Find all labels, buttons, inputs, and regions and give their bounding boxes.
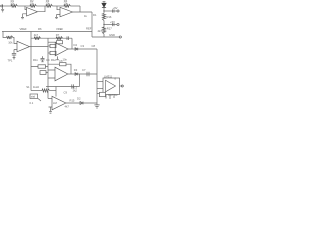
rail C mid horizontal — [31, 37, 72, 39]
wire to U3 — [13, 38, 17, 44]
svg-text:xtal: xtal — [31, 95, 36, 99]
resistor R4 (feedback) — [64, 4, 70, 7]
svg-text:D2: D2 — [77, 97, 81, 101]
component box P1 — [100, 92, 106, 96]
ground (input) — [1, 9, 4, 12]
svg-text:C3: C3 — [81, 44, 85, 48]
svg-text:8: 8 — [115, 77, 117, 81]
svg-text:R11: R11 — [33, 58, 38, 62]
capacitor tap2 marks — [113, 23, 114, 26]
op-amp U3 — [17, 41, 30, 52]
svg-text:C7: C7 — [82, 68, 86, 72]
resistor R7 — [56, 37, 62, 40]
wire R9 left — [48, 52, 50, 54]
wire P1 left — [97, 93, 100, 95]
wire — [36, 5, 46, 7]
terminal T1 — [117, 10, 119, 12]
svg-text:OUT 5V: OUT 5V — [108, 93, 118, 97]
rail E horizontal — [46, 86, 80, 88]
wire U3 lower input — [14, 50, 17, 54]
wire U5 inputs — [48, 70, 55, 78]
wire bottom line right — [92, 36, 119, 38]
svg-text:0.1: 0.1 — [30, 101, 34, 105]
diode D4 — [75, 48, 78, 51]
resistor R3 — [46, 4, 52, 7]
resistor R1 — [11, 4, 17, 7]
ground (U6) — [49, 112, 52, 113]
wire bus bottom — [103, 34, 105, 37]
diode D3 — [75, 73, 78, 76]
capacitor C1 — [12, 53, 16, 55]
capacitor C7 — [87, 72, 89, 76]
capacitor C10 mark — [56, 56, 59, 59]
op-amp U5 — [55, 67, 68, 81]
wire below C1 — [13, 55, 15, 57]
capacitor tap1 marks — [113, 9, 114, 12]
resistor R8 (box) — [50, 44, 56, 47]
svg-text:4k7: 4k7 — [65, 105, 70, 109]
wire vertical to rail B — [91, 12, 93, 37]
svg-text:LM: LM — [53, 101, 57, 105]
wire x97 vertical — [96, 49, 98, 105]
ground (C1) — [13, 58, 16, 59]
svg-text:4k7: 4k7 — [98, 29, 103, 33]
capacitor C2 — [67, 36, 69, 40]
svg-text:D4: D4 — [74, 43, 78, 47]
op-amp U1 — [27, 8, 38, 17]
wire bus mid — [103, 21, 105, 28]
wire U7 input bottom — [97, 88, 103, 90]
wire tap 1 — [104, 10, 117, 12]
svg-text:GND: GND — [109, 33, 115, 37]
component box above U5 — [60, 63, 67, 66]
svg-text:1kHz: 1kHz — [33, 85, 40, 89]
resistor R5 — [7, 36, 13, 39]
diode D2 — [80, 102, 83, 105]
resistor R11 (box) — [38, 65, 46, 68]
wire U1 noninverting stub — [23, 14, 27, 17]
right bus top tick — [103, 1, 106, 3]
wire — [17, 5, 30, 7]
wire U7 input top — [97, 81, 103, 83]
terminal T2 — [117, 23, 119, 25]
resistor R17 (vertical) — [102, 27, 105, 34]
svg-text:+9V: +9V — [113, 6, 118, 10]
wire — [52, 5, 64, 7]
svg-text:D1: D1 — [93, 13, 97, 17]
wire x56 vertical up — [55, 87, 57, 91]
capacitor C9 on rail E — [72, 84, 74, 88]
svg-text:2k2: 2k2 — [73, 89, 78, 93]
svg-text:LM311: LM311 — [104, 74, 113, 78]
wire U7 output stub — [120, 85, 122, 87]
svg-text:VREF: VREF — [20, 27, 28, 31]
resistor R16 (vertical) — [102, 14, 105, 21]
svg-text:R17: R17 — [107, 27, 112, 31]
svg-text:TP1: TP1 — [8, 59, 13, 63]
wire U6 bottom input — [49, 107, 53, 111]
resistor R14 — [42, 89, 50, 92]
resistor R6 — [34, 37, 40, 40]
svg-text:S1: S1 — [26, 85, 30, 89]
wire left bus x31 — [30, 32, 32, 91]
pin stubs below U7 — [106, 95, 114, 100]
svg-text:REF: REF — [86, 27, 92, 31]
svg-text:C4: C4 — [46, 58, 50, 62]
wire U4 output — [68, 48, 97, 50]
wire rail C to U4 feedback — [71, 38, 73, 49]
component C5 box — [40, 71, 46, 75]
wire U2 output — [73, 6, 93, 12]
svg-text:R12: R12 — [51, 58, 56, 62]
op-amp U6 — [52, 96, 66, 110]
ground (x97) — [94, 105, 99, 108]
component RF box above U4 — [57, 41, 63, 44]
svg-text:C6: C6 — [59, 59, 63, 63]
svg-text:+5V: +5V — [110, 20, 115, 24]
wire U3 output — [30, 46, 49, 48]
right bus vertical top — [103, 2, 105, 14]
ground (U1) — [21, 17, 24, 18]
wire — [70, 5, 80, 7]
wire x56 vertical down — [55, 91, 57, 97]
terminal T4 — [121, 85, 123, 87]
node dot — [103, 10, 104, 11]
ground (U2) — [55, 17, 58, 18]
wire U5 output — [68, 73, 97, 75]
wire U6 output — [66, 102, 97, 104]
wire U5 feedback — [48, 64, 71, 74]
tick X1 — [38, 99, 41, 102]
wire RF left — [48, 41, 57, 43]
wire — [50, 90, 56, 92]
svg-text:D3: D3 — [74, 68, 78, 72]
wire — [3, 5, 11, 7]
svg-text:VREF: VREF — [56, 27, 64, 31]
wire U6 top input — [48, 98, 52, 100]
svg-text:R15: R15 — [70, 98, 75, 102]
input source terminal — [1, 4, 3, 9]
op-amp U2 — [60, 7, 73, 16]
terminal T3 — [119, 36, 121, 38]
wire rail B drop left — [3, 32, 7, 38]
wire node to U2 inverting input — [57, 6, 60, 10]
op-amp U4 — [55, 43, 68, 56]
diode D1 — [102, 3, 106, 7]
wire node to U1 inverting input — [25, 6, 27, 10]
rail D horizontal — [31, 66, 48, 68]
svg-text:10k: 10k — [8, 41, 13, 45]
svg-text:R6: R6 — [38, 27, 42, 31]
wire U1 output — [38, 6, 46, 12]
op-amp U7 — [106, 80, 116, 92]
IC box U7 — [103, 78, 120, 95]
wire bus x48 — [47, 38, 49, 98]
wire tap 2 — [104, 24, 117, 26]
capacitor C4 with ground — [41, 56, 45, 62]
wire junction drop x79 — [79, 74, 81, 87]
wire bottom row — [31, 90, 42, 92]
node dot 2 — [103, 24, 104, 25]
wire C5 right — [46, 72, 48, 74]
resistor R9 (box) — [50, 51, 56, 54]
svg-text:10n: 10n — [63, 58, 68, 62]
rail B horizontal — [2, 31, 92, 33]
svg-text:C9: C9 — [64, 90, 68, 94]
svg-text:R16: R16 — [107, 15, 112, 19]
wire R8 left — [48, 45, 50, 47]
component box X1 — [30, 94, 38, 99]
wire U2 noninverting stub — [57, 15, 61, 18]
svg-text:C8: C8 — [92, 44, 96, 48]
svg-text:1k: 1k — [84, 14, 87, 18]
resistor R2 (feedback) — [30, 4, 36, 7]
